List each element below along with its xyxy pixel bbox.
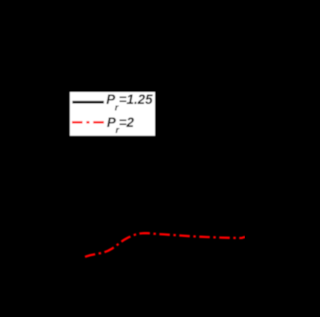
svg-text:=1.25: =1.25	[119, 92, 153, 107]
legend line sample P_r=1.25 (black solid)	[72, 101, 103, 104]
svg-text:=2: =2	[119, 115, 135, 130]
legend box	[69, 91, 155, 136]
legend line sample P_r=2 (red dash-dot)	[72, 121, 104, 123]
curve P_r=2 (red dash-dot)	[85, 233, 245, 257]
